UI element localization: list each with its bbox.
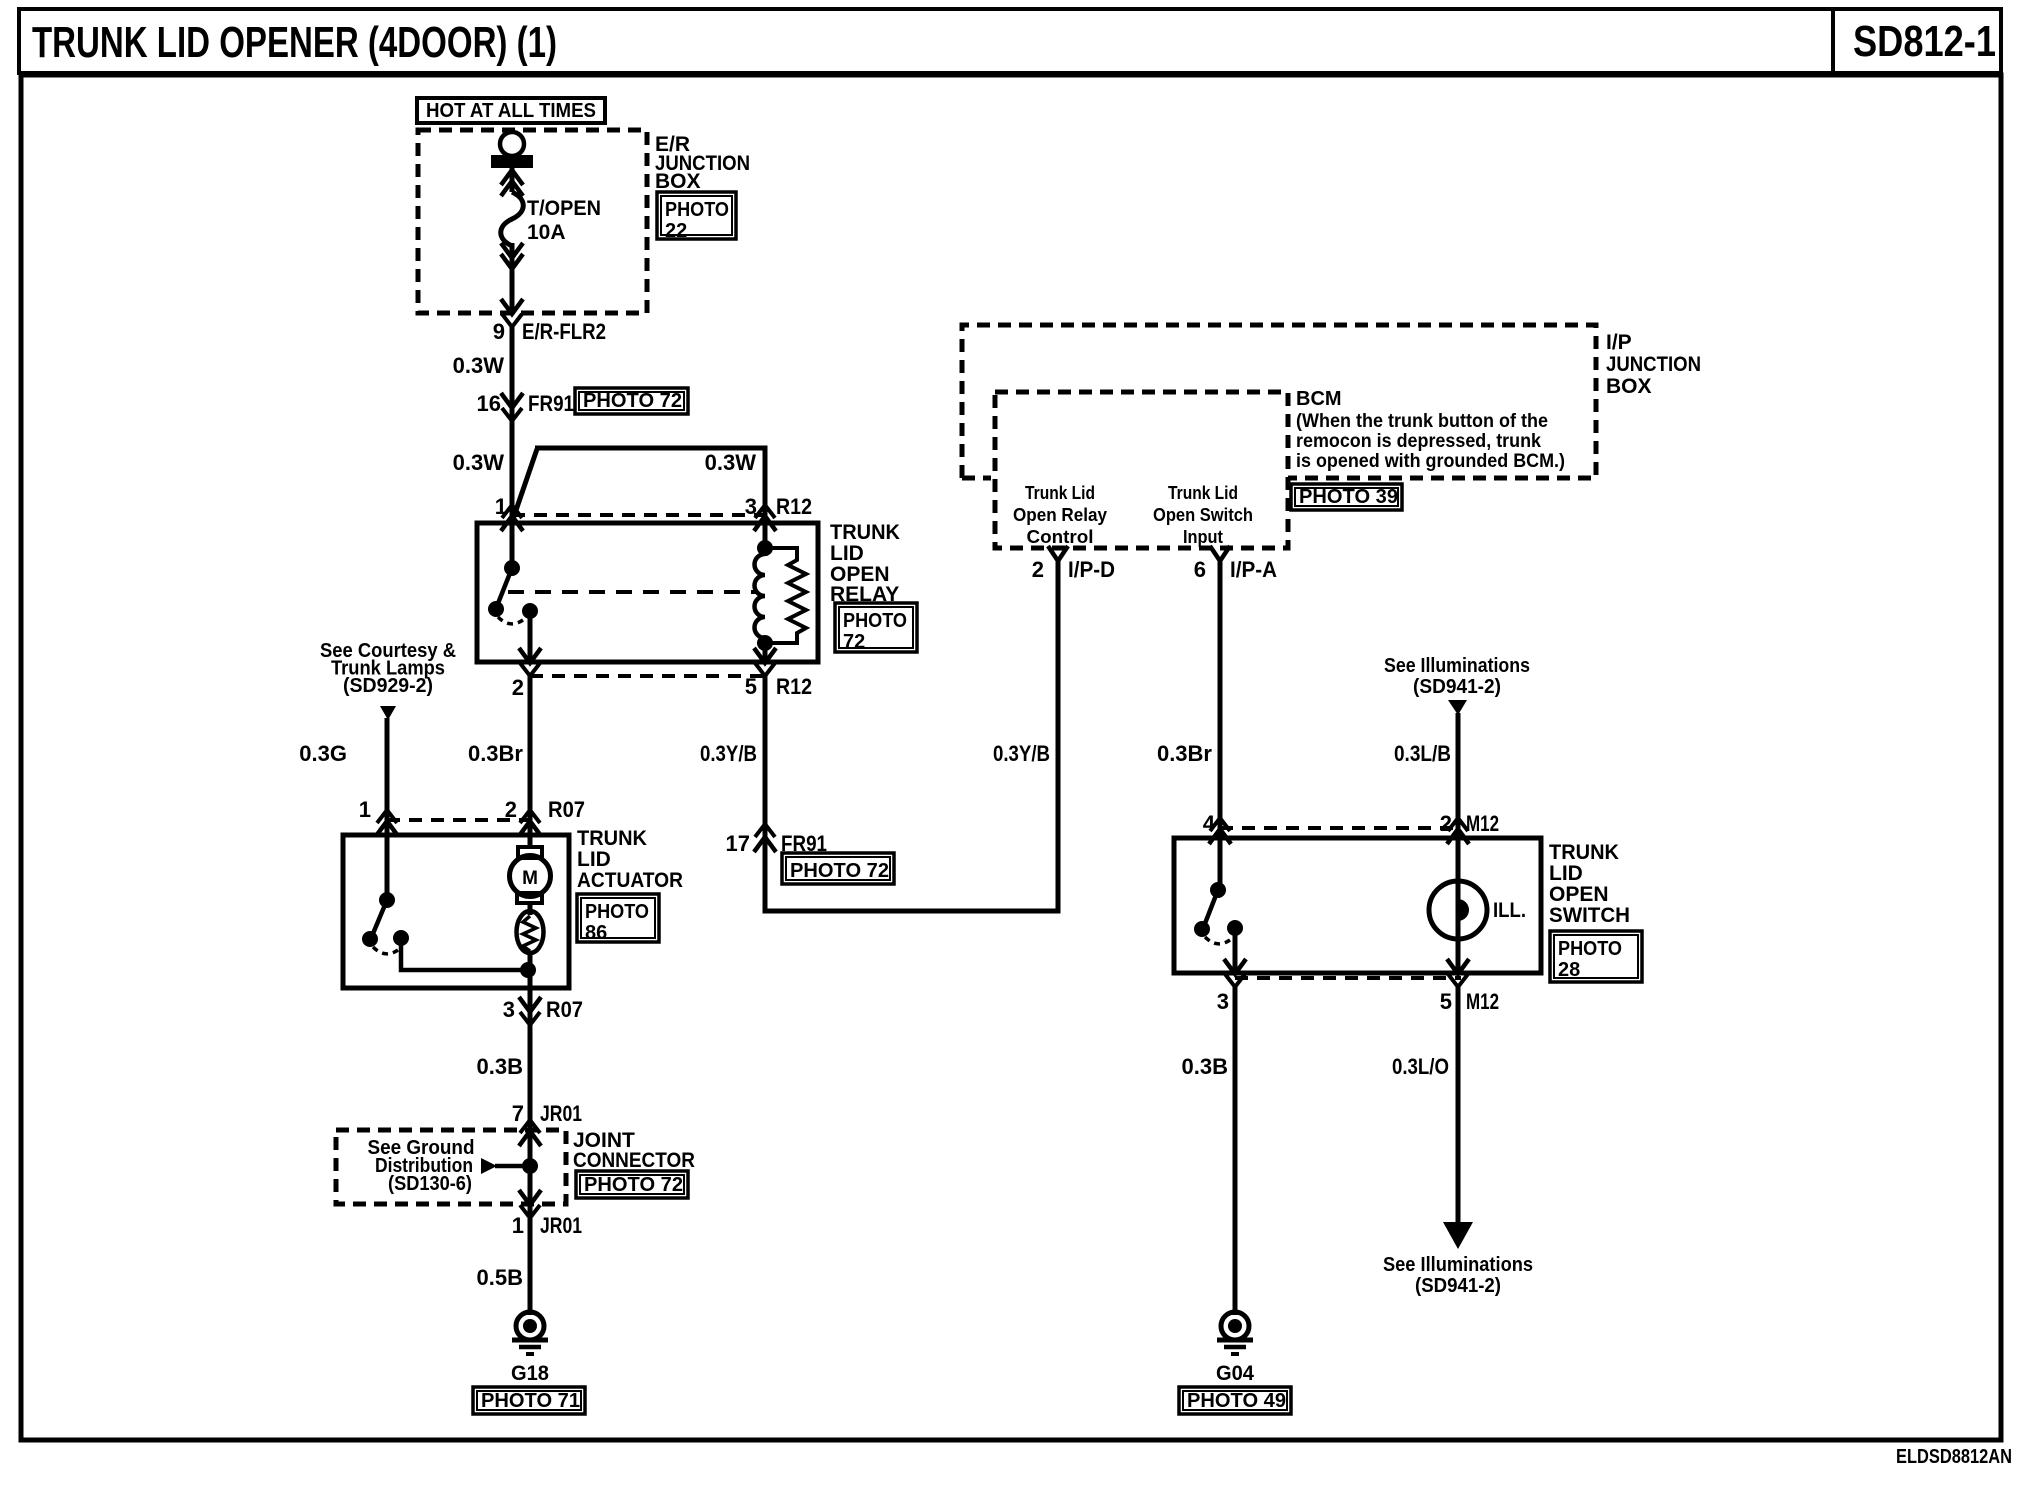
connector line switch pins 4-2 (dashed) <box>1220 826 1461 830</box>
svg-text:M12: M12 <box>1466 989 1499 1014</box>
svg-text:LID: LID <box>830 542 864 565</box>
actuator internal junction <box>520 962 536 978</box>
relay coil suppression resistor <box>765 548 806 643</box>
photo ref PHOTO 86 <box>577 894 659 944</box>
switch box TRUNK LID OPEN SWITCH <box>1174 838 1541 973</box>
svg-text:PHOTO 39: PHOTO 39 <box>1299 486 1398 508</box>
actuator pin 3 connector <box>519 988 541 1025</box>
svg-text:(SD941-2): (SD941-2) <box>1413 676 1501 698</box>
BCM pin 2 connector <box>1048 546 1068 561</box>
svg-text:7: 7 <box>512 1101 524 1126</box>
title text TRUNK LID OPENER (4DOOR) (1) <box>32 18 557 67</box>
pin label 2 <box>512 675 524 700</box>
svg-text:G18: G18 <box>511 1362 549 1385</box>
svg-text:4: 4 <box>1203 811 1216 836</box>
svg-text:BOX: BOX <box>655 170 701 193</box>
joint connector box (dashed) <box>336 1130 566 1204</box>
svg-text:R12: R12 <box>776 494 812 519</box>
svg-text:2: 2 <box>1032 557 1044 582</box>
svg-text:17: 17 <box>726 831 750 856</box>
wire label 0.3L/O <box>1392 1054 1449 1079</box>
actuator box TRUNK LID ACTUATOR <box>343 835 569 988</box>
svg-text:9: 9 <box>493 319 505 344</box>
photo ref PHOTO 49 <box>1179 1387 1291 1414</box>
svg-text:Trunk Lid: Trunk Lid <box>1025 483 1095 503</box>
svg-text:is opened with grounded BCM.): is opened with grounded BCM.) <box>1296 450 1565 472</box>
wire through joint connector <box>522 1131 538 1218</box>
label HOT AT ALL TIMES <box>417 98 605 123</box>
switch contact <box>1194 840 1243 973</box>
svg-text:PHOTO 72: PHOTO 72 <box>790 860 889 882</box>
photo ref PHOTO 72 (FR91 17) <box>782 853 894 884</box>
inline connector 16 FR91 <box>501 393 523 421</box>
pin label 3 R12 <box>745 494 812 519</box>
svg-text:OPEN: OPEN <box>1549 883 1609 906</box>
svg-text:Input: Input <box>1183 527 1223 547</box>
wire branch to relay pin 3 (0.3W) <box>513 448 765 548</box>
BCM output label Trunk Lid Open Relay Control <box>1013 483 1107 547</box>
svg-text:SWITCH: SWITCH <box>1549 904 1630 927</box>
svg-text:0.3Br: 0.3Br <box>468 741 523 766</box>
wire label 0.5B <box>477 1265 523 1290</box>
wire label 0.3B <box>477 1054 523 1079</box>
svg-text:72: 72 <box>843 631 865 653</box>
relay name label <box>830 521 900 606</box>
svg-text:0.3L/O: 0.3L/O <box>1392 1054 1449 1079</box>
I/P junction box label <box>1606 331 1701 398</box>
connector line relay pins 2-5 (dashed) <box>530 674 768 678</box>
svg-text:0.3Y/B: 0.3Y/B <box>993 741 1050 766</box>
joint connector pin 7 JR01 <box>519 1120 541 1146</box>
node arrow from illuminations <box>1448 700 1467 715</box>
svg-text:LID: LID <box>577 848 611 871</box>
relay switch contact <box>488 528 538 662</box>
connector line actuator pins 1-2 (dashed) <box>387 818 533 822</box>
I/P junction box (dashed) <box>962 325 1596 478</box>
actuator pin 1 connector <box>376 810 398 836</box>
wire label 0.3L/B <box>1394 741 1451 766</box>
BCM pin 6 connector <box>1210 546 1230 561</box>
relay pin 3 connector <box>754 505 776 531</box>
svg-text:R12: R12 <box>776 674 812 699</box>
pin label 4 <box>1203 811 1216 836</box>
wire label 0.3Br <box>1157 741 1212 766</box>
wire label 0.3G <box>299 741 347 766</box>
actuator pin 2 connector <box>519 810 541 836</box>
BCM input label Trunk Lid Open Switch Input <box>1153 483 1253 547</box>
pin label 7 JR01 <box>512 1101 582 1126</box>
ground G04 <box>1217 1312 1253 1354</box>
relay U1 box TRUNK LID OPEN RELAY <box>477 523 818 662</box>
svg-text:PHOTO: PHOTO <box>665 199 729 221</box>
node arrow to illuminations <box>1443 1222 1473 1249</box>
switch pin 4 connector <box>1209 818 1231 844</box>
svg-text:PHOTO: PHOTO <box>1558 938 1622 960</box>
title band frame <box>19 9 2001 73</box>
svg-text:0.3B: 0.3B <box>1182 1054 1228 1079</box>
note See Ground Distribution (SD130-6) <box>368 1137 475 1195</box>
ground label G18 <box>511 1362 549 1385</box>
fuse value label T/OPEN 10A <box>527 197 601 244</box>
pin label 6 I/P-A <box>1194 557 1277 582</box>
wire 0.3W from fuse to FR91 <box>510 327 515 560</box>
svg-text:TRUNK LID OPENER (4DOOR) (1): TRUNK LID OPENER (4DOOR) (1) <box>32 18 557 67</box>
wire label 0.3Y/B <box>993 741 1050 766</box>
svg-text:FR91: FR91 <box>528 391 574 416</box>
wire label 0.3Y/B <box>700 741 757 766</box>
switch name label <box>1549 841 1630 927</box>
svg-text:0.3W: 0.3W <box>453 353 505 378</box>
pin label 2 I/P-D <box>1032 557 1115 582</box>
svg-text:(SD941-2): (SD941-2) <box>1415 1275 1501 1297</box>
svg-text:Open Switch: Open Switch <box>1153 505 1253 525</box>
joint connector name label <box>573 1129 695 1172</box>
svg-text:See Illuminations: See Illuminations <box>1383 1254 1533 1276</box>
switch pin 5 connector <box>1447 959 1469 987</box>
svg-text:10A: 10A <box>527 221 566 244</box>
pin label 5 M12 <box>1440 989 1499 1014</box>
svg-text:5: 5 <box>745 674 757 699</box>
svg-text:T/OPEN: T/OPEN <box>527 197 601 220</box>
svg-text:ACTUATOR: ACTUATOR <box>577 869 683 892</box>
wire 0.3G to actuator pin 1 <box>385 718 390 835</box>
svg-text:R07: R07 <box>546 997 583 1022</box>
wire label 0.3B <box>1182 1054 1228 1079</box>
ground distribution arrow <box>481 1158 530 1174</box>
svg-text:ELDSD8812AN: ELDSD8812AN <box>1896 1446 2012 1468</box>
joint connector pin 1 JR01 <box>519 1190 541 1218</box>
BCM note text <box>1296 388 1565 472</box>
svg-text:CONNECTOR: CONNECTOR <box>573 1149 695 1172</box>
actuator name label <box>577 827 683 892</box>
svg-text:3: 3 <box>503 997 515 1022</box>
photo ref PHOTO 72 (FR91) <box>575 388 688 414</box>
svg-text:M12: M12 <box>1466 811 1499 836</box>
svg-text:JR01: JR01 <box>540 1101 582 1126</box>
svg-text:0.3Br: 0.3Br <box>1157 741 1212 766</box>
svg-text:5: 5 <box>1440 989 1452 1014</box>
photo ref PHOTO 28 <box>1550 931 1642 982</box>
sheet code SD812-1 <box>1853 17 1996 66</box>
pin label 1 <box>359 797 371 822</box>
wire 0.3Y/B BCM pin2 to relay pin5 <box>765 561 1058 911</box>
photo ref PHOTO 22 <box>657 192 736 242</box>
svg-text:0.3G: 0.3G <box>299 741 347 766</box>
wire label 0.3W <box>453 450 505 475</box>
pin label 3 <box>1217 989 1229 1014</box>
connector line relay pins 1-3 (dashed) <box>512 513 768 517</box>
wire label 0.3Br <box>468 741 523 766</box>
note See Courtesy & Trunk Lamps (SD929-2) <box>320 640 456 697</box>
svg-text:PHOTO: PHOTO <box>843 610 907 632</box>
pin label 2 M12 <box>1440 811 1499 836</box>
svg-text:2: 2 <box>505 797 517 822</box>
pin label 1 JR01 <box>512 1213 582 1238</box>
wire 0.3Br relay pin2 to actuator pin2 <box>528 676 533 847</box>
pin label 9 E/R-FLR2 <box>493 319 606 344</box>
relay actuation link (dashed) <box>508 590 757 594</box>
actuator thermal protector <box>517 902 544 988</box>
svg-text:LID: LID <box>1549 862 1583 885</box>
svg-text:SD812-1: SD812-1 <box>1853 17 1996 66</box>
inline connector 17 FR91 <box>754 824 776 852</box>
svg-text:0.3W: 0.3W <box>705 450 757 475</box>
svg-text:ILL.: ILL. <box>1493 899 1526 922</box>
svg-text:6: 6 <box>1194 557 1206 582</box>
wire label 0.3W <box>705 450 757 475</box>
photo ref PHOTO 71 <box>473 1387 585 1414</box>
svg-text:JR01: JR01 <box>540 1213 582 1238</box>
svg-text:1: 1 <box>359 797 371 822</box>
svg-text:16: 16 <box>477 391 501 416</box>
svg-text:HOT AT ALL TIMES: HOT AT ALL TIMES <box>426 100 596 122</box>
relay coil <box>755 540 773 662</box>
connector pin 9 E/R-FLR2 <box>501 299 523 327</box>
svg-text:I/P-A: I/P-A <box>1230 557 1277 582</box>
svg-text:Control: Control <box>1027 527 1094 547</box>
svg-text:0.3W: 0.3W <box>453 450 505 475</box>
BCM box (dashed) <box>995 392 1288 548</box>
connector line switch pins 3-5 (dashed) <box>1235 976 1461 980</box>
svg-text:(SD929-2): (SD929-2) <box>343 675 433 697</box>
relay pin 1 connector <box>501 505 523 531</box>
node arrow from courtesy lamps <box>380 706 396 720</box>
svg-text:PHOTO: PHOTO <box>585 901 649 923</box>
fuse T/OPEN 10A <box>491 132 533 313</box>
svg-text:0.3B: 0.3B <box>477 1054 523 1079</box>
relay pin 5 connector <box>754 648 776 676</box>
ground label G04 <box>1216 1362 1254 1385</box>
svg-text:(SD130-6): (SD130-6) <box>388 1173 472 1195</box>
svg-text:TRUNK: TRUNK <box>577 827 647 850</box>
wire 0.3L/B to switch pin2 <box>1456 713 1461 838</box>
drawing number ELDSD8812AN <box>1896 1446 2012 1468</box>
actuator motor M <box>510 847 551 903</box>
pin label 2 R07 <box>505 797 585 822</box>
illumination lamp ILL. <box>1429 840 1487 973</box>
svg-text:PHOTO 72: PHOTO 72 <box>583 390 682 412</box>
svg-text:2: 2 <box>512 675 524 700</box>
svg-text:0.3Y/B: 0.3Y/B <box>700 741 757 766</box>
pin label 3 R07 <box>503 997 583 1022</box>
svg-text:0.5B: 0.5B <box>477 1265 523 1290</box>
svg-text:(When the trunk button of the: (When the trunk button of the <box>1296 410 1548 432</box>
wire 0.3B actuator to joint connector <box>528 1025 533 1131</box>
svg-text:BOX: BOX <box>1606 375 1652 398</box>
svg-text:BCM: BCM <box>1296 388 1342 410</box>
pin label 16 FR91 <box>477 391 574 416</box>
svg-text:TRUNK: TRUNK <box>830 521 900 544</box>
pin label 17 FR91 <box>726 831 827 856</box>
svg-text:TRUNK: TRUNK <box>1549 841 1619 864</box>
wire 0.3L/O switch pin5 to illuminations <box>1456 987 1461 1224</box>
photo ref PHOTO 39 <box>1291 484 1402 510</box>
svg-text:I/P-D: I/P-D <box>1068 557 1115 582</box>
switch pin 2 connector <box>1447 818 1469 844</box>
pin label 1 <box>495 494 507 519</box>
photo ref PHOTO 72 (joint connector) <box>576 1171 688 1198</box>
svg-text:22: 22 <box>665 220 687 242</box>
E/R junction box label <box>655 133 750 193</box>
svg-text:PHOTO 72: PHOTO 72 <box>584 1174 683 1196</box>
svg-text:R07: R07 <box>548 797 585 822</box>
svg-text:See Illuminations: See Illuminations <box>1384 655 1530 677</box>
note See Illuminations (SD941-2) top <box>1384 655 1530 698</box>
svg-text:2: 2 <box>1440 811 1452 836</box>
E/R junction box (dashed) <box>418 130 647 313</box>
svg-text:86: 86 <box>585 922 607 944</box>
ground G18 <box>512 1312 548 1354</box>
svg-text:PHOTO 71: PHOTO 71 <box>481 1390 580 1412</box>
svg-text:PHOTO 49: PHOTO 49 <box>1187 1390 1286 1412</box>
svg-text:remocon is depressed, trunk: remocon is depressed, trunk <box>1296 430 1541 452</box>
lamp label ILL. <box>1493 899 1526 922</box>
svg-text:M: M <box>522 868 538 889</box>
svg-text:0.3L/B: 0.3L/B <box>1394 741 1451 766</box>
wire 0.3B switch pin3 to ground G04 <box>1233 987 1238 1315</box>
switch pin 3 connector <box>1224 959 1246 987</box>
relay pin 2 connector <box>519 648 541 676</box>
wire label 0.3W <box>453 353 505 378</box>
pin label 5 R12 <box>745 674 812 699</box>
note See Illuminations (SD941-2) bottom <box>1383 1254 1533 1297</box>
svg-text:JUNCTION: JUNCTION <box>1606 353 1701 376</box>
svg-text:E/R-FLR2: E/R-FLR2 <box>522 319 606 344</box>
svg-text:1: 1 <box>512 1213 524 1238</box>
svg-text:Open Relay: Open Relay <box>1013 505 1107 525</box>
actuator switch contact <box>362 837 528 970</box>
svg-text:28: 28 <box>1558 959 1580 981</box>
svg-text:I/P: I/P <box>1606 331 1632 354</box>
svg-text:G04: G04 <box>1216 1362 1254 1385</box>
svg-text:3: 3 <box>1217 989 1229 1014</box>
svg-text:Trunk Lid: Trunk Lid <box>1168 483 1238 503</box>
wire 0.3Br BCM pin6 to switch pin4 <box>1218 561 1223 838</box>
wire 0.5B to ground G18 <box>528 1218 533 1315</box>
photo ref PHOTO 72 (relay) <box>835 603 917 653</box>
